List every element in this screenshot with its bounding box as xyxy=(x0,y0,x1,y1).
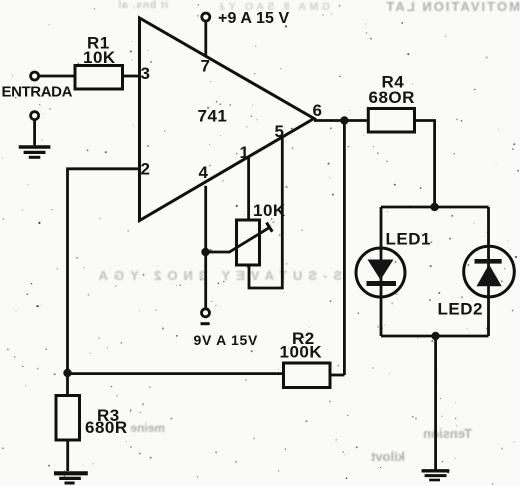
svg-text:S-SUTAVEY 3NO2 YGA: S-SUTAVEY 3NO2 YGA xyxy=(93,268,342,283)
svg-text:it bns. al: it bns. al xyxy=(117,0,168,11)
svg-text:ENTRADA: ENTRADA xyxy=(2,83,73,100)
svg-text:1: 1 xyxy=(240,143,250,162)
svg-text:4: 4 xyxy=(199,163,209,182)
svg-text:2: 2 xyxy=(141,160,151,179)
svg-text:3: 3 xyxy=(141,64,151,83)
svg-text:meine: meine xyxy=(130,421,165,435)
svg-text:5: 5 xyxy=(275,122,285,141)
svg-text:LED2: LED2 xyxy=(438,300,483,319)
svg-text:LED1: LED1 xyxy=(386,230,431,249)
svg-text:100K: 100K xyxy=(280,343,323,362)
svg-text:680R: 680R xyxy=(85,418,128,437)
svg-text:741: 741 xyxy=(198,107,228,126)
svg-text:68OR: 68OR xyxy=(369,88,415,107)
svg-text:+9 A 15 V: +9 A 15 V xyxy=(218,10,290,27)
svg-text:10K: 10K xyxy=(253,201,286,220)
svg-text:10K: 10K xyxy=(83,48,116,67)
svg-text:Tension: Tension xyxy=(423,426,472,441)
svg-text:MOTIVATION LAT: MOTIVATION LAT xyxy=(384,0,520,14)
svg-text:6: 6 xyxy=(313,101,323,120)
svg-text:9V A 15V: 9V A 15V xyxy=(194,332,259,348)
svg-text:kilovt: kilovt xyxy=(370,449,405,464)
svg-text:7: 7 xyxy=(201,57,211,76)
